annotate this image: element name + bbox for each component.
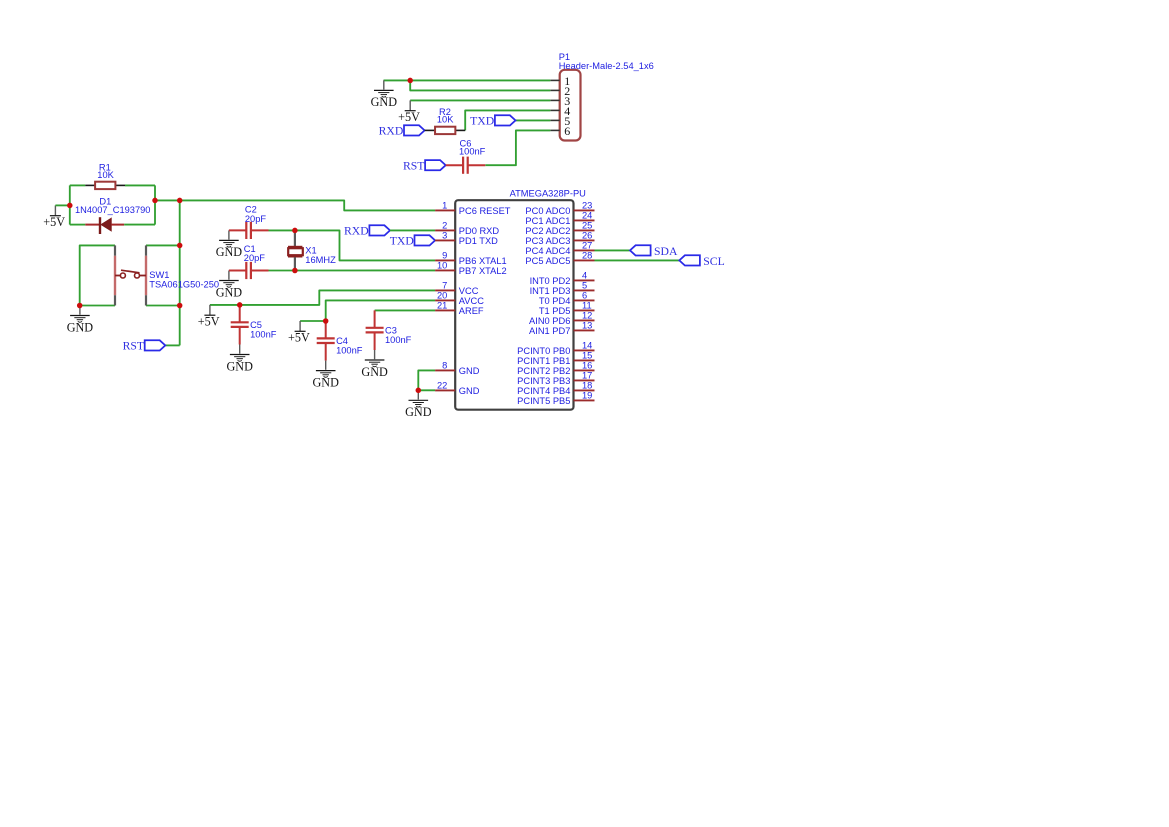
svg-text:14: 14 xyxy=(582,341,592,351)
wire SW1 bottom right xyxy=(146,305,180,307)
svg-text:13: 13 xyxy=(582,321,592,331)
IC U1 ATMEGA328P-PU body xyxy=(455,200,573,410)
IC pin 9 PB6 XTAL1 xyxy=(435,259,455,261)
IC pin 25 PC2 ADC2 xyxy=(574,229,595,231)
svg-text:GND: GND xyxy=(459,386,480,396)
svg-text:GND: GND xyxy=(312,375,339,389)
IC pin 14 PCINT0 PB0 xyxy=(574,349,595,351)
net flag TXD (at IC pin3) xyxy=(415,235,436,245)
IC pin 19 PCINT5 PB5 xyxy=(574,399,595,401)
wire left side of R1/D1 loop xyxy=(69,185,71,224)
capacitor C3 xyxy=(374,310,376,327)
IC pin 24 PC1 ADC1 xyxy=(574,219,595,221)
ground flag under C3 xyxy=(365,350,385,367)
junction SW1 bottom xyxy=(177,303,183,309)
ground flag at C1 xyxy=(219,271,239,288)
svg-text:19: 19 xyxy=(582,391,592,401)
svg-text:RXD: RXD xyxy=(344,225,369,238)
wire AREF to C3 xyxy=(375,309,436,311)
wire C4 node to +5V xyxy=(300,320,326,322)
svg-text:GND: GND xyxy=(405,405,432,419)
svg-text:PC0 ADC0: PC0 ADC0 xyxy=(525,206,570,216)
junction C4 node xyxy=(323,318,329,324)
svg-text:15: 15 xyxy=(582,351,592,361)
junction on pin1 net xyxy=(407,78,413,84)
svg-text:20: 20 xyxy=(437,291,447,301)
wire junction to P1 pin2 xyxy=(410,80,550,90)
svg-text:GND: GND xyxy=(459,366,480,376)
wire C2 to junction xyxy=(269,229,295,231)
svg-text:10K: 10K xyxy=(97,170,114,180)
IC pin 10 PB7 XTAL2 xyxy=(435,269,455,271)
net flag RXD (at R2) xyxy=(404,125,425,135)
wire SW1 left loop xyxy=(80,245,115,305)
wire D1 to loop right xyxy=(124,224,155,226)
pin 3 of P1 xyxy=(550,99,559,101)
wire C6 to P1 pin6 xyxy=(485,130,550,165)
capacitor C5 xyxy=(239,305,241,322)
svg-text:VCC: VCC xyxy=(459,286,479,296)
svg-text:GND: GND xyxy=(371,95,398,109)
ground flag near P1 xyxy=(374,80,394,97)
svg-text:+5V: +5V xyxy=(198,315,220,329)
power flag +5V at C4 xyxy=(299,321,301,331)
wire TXD flag to P1 pin5 xyxy=(516,119,551,121)
svg-text:RXD: RXD xyxy=(379,125,404,138)
svg-text:GND: GND xyxy=(67,320,94,334)
net flag SCL xyxy=(679,255,700,265)
svg-text:SDA: SDA xyxy=(654,245,678,258)
ground flag under SW1 xyxy=(70,306,90,323)
svg-text:9: 9 xyxy=(442,251,447,261)
wire to RST flag xyxy=(165,344,179,346)
svg-text:24: 24 xyxy=(582,211,592,221)
svg-text:22: 22 xyxy=(437,381,447,391)
svg-text:10: 10 xyxy=(437,261,447,271)
resistor R1 xyxy=(85,184,94,186)
svg-text:RST: RST xyxy=(403,160,424,173)
net flag RXD (at IC pin2) xyxy=(369,225,390,235)
power flag +5V at C5 xyxy=(209,305,211,315)
power flag +5V near P1 xyxy=(409,100,411,110)
svg-text:23: 23 xyxy=(582,201,592,211)
wire reset node to IC pin1 xyxy=(180,200,435,210)
junction XTAL2 node xyxy=(292,268,298,274)
IC pin 23 PC0 ADC0 xyxy=(574,209,595,211)
svg-text:INT0 PD2: INT0 PD2 xyxy=(530,276,571,286)
svg-text:28: 28 xyxy=(582,251,592,261)
svg-text:TXD: TXD xyxy=(470,115,494,128)
svg-text:+5V: +5V xyxy=(43,215,65,229)
IC pin 13 AIN1 PD7 xyxy=(574,329,595,331)
svg-text:PC1 ADC1: PC1 ADC1 xyxy=(525,216,570,226)
IC pin 12 AIN0 PD6 xyxy=(574,319,595,321)
wire +5V to P1 pin3 xyxy=(410,99,550,101)
svg-text:25: 25 xyxy=(582,221,592,231)
ground flag under C5 xyxy=(230,345,250,362)
junction main reset node xyxy=(177,198,183,204)
wire VCC to +5V rail xyxy=(210,290,435,305)
svg-text:100nF: 100nF xyxy=(459,147,486,157)
svg-text:6: 6 xyxy=(564,124,570,138)
svg-text:26: 26 xyxy=(582,231,592,241)
svg-text:T0 PD4: T0 PD4 xyxy=(539,296,571,306)
svg-text:16MHZ: 16MHZ xyxy=(305,255,336,265)
svg-text:1N4007_C193790: 1N4007_C193790 xyxy=(75,205,150,215)
svg-text:PD1 TXD: PD1 TXD xyxy=(459,236,498,246)
svg-text:PC4 ADC4: PC4 ADC4 xyxy=(525,246,570,256)
svg-text:PC5 ADC5: PC5 ADC5 xyxy=(525,256,570,266)
svg-text:PD0 RXD: PD0 RXD xyxy=(459,226,500,236)
svg-text:17: 17 xyxy=(582,371,592,381)
svg-text:SCL: SCL xyxy=(703,255,724,268)
ground flag under IC xyxy=(409,390,429,407)
svg-text:12: 12 xyxy=(582,311,592,321)
wire IC pin27 to SDA xyxy=(595,249,631,251)
IC pin 15 PCINT1 PB1 xyxy=(574,359,595,361)
IC pin 28 PC5 ADC5 xyxy=(574,259,595,261)
svg-text:6: 6 xyxy=(582,291,587,301)
svg-text:11: 11 xyxy=(582,301,592,311)
capacitor C4 xyxy=(325,321,327,338)
svg-text:TXD: TXD xyxy=(390,235,414,248)
svg-text:AREF: AREF xyxy=(459,306,484,316)
IC pin 20 AVCC xyxy=(435,299,455,301)
wire right side of loop xyxy=(154,185,156,224)
diode D1 xyxy=(70,224,86,226)
svg-text:1: 1 xyxy=(442,201,447,211)
capacitor C6 xyxy=(446,164,463,166)
IC pin 1 PC6 RESET xyxy=(435,209,455,211)
wire C1 to junction xyxy=(269,270,295,272)
svg-text:PC6 RESET: PC6 RESET xyxy=(459,206,511,216)
IC pin 21 AREF xyxy=(435,309,455,311)
ground flag under C4 xyxy=(316,361,336,378)
svg-text:GND: GND xyxy=(216,285,243,299)
net flag RST (reset line) xyxy=(145,340,166,350)
svg-text:AIN1 PD7: AIN1 PD7 xyxy=(529,326,570,336)
wire RXD to IC pin2 xyxy=(390,229,435,231)
svg-text:PB6 XTAL1: PB6 XTAL1 xyxy=(459,256,507,266)
ground flag at C2 xyxy=(219,230,239,247)
svg-text:ATMEGA328P-PU: ATMEGA328P-PU xyxy=(510,189,586,199)
svg-text:10K: 10K xyxy=(437,115,454,125)
IC pin 16 PCINT2 PB2 xyxy=(574,369,595,371)
wire XTAL1 node to IC pin9 xyxy=(295,230,435,260)
wire IC pin28 to SCL xyxy=(595,259,680,261)
svg-text:PC3 ADC3: PC3 ADC3 xyxy=(525,236,570,246)
IC pin 27 PC4 ADC4 xyxy=(574,249,595,251)
wire to R1 left xyxy=(70,184,86,186)
net flag TXD xyxy=(495,115,516,125)
svg-text:PCINT1 PB1: PCINT1 PB1 xyxy=(517,356,570,366)
svg-text:16: 16 xyxy=(582,361,592,371)
power flag +5V at R1/D1 xyxy=(54,205,56,215)
junction XTAL1 node xyxy=(292,228,298,234)
svg-text:PB7 XTAL2: PB7 XTAL2 xyxy=(459,266,507,276)
svg-text:TSA061G50-250: TSA061G50-250 xyxy=(149,280,219,290)
wire reset node vertical xyxy=(179,200,181,345)
svg-text:2: 2 xyxy=(442,221,447,231)
svg-text:+5V: +5V xyxy=(398,110,420,124)
IC pin 6 T0 PD4 xyxy=(574,299,595,301)
IC pin 5 INT1 PD3 xyxy=(574,289,595,291)
svg-text:SW1: SW1 xyxy=(149,270,169,280)
svg-text:PCINT4 PB4: PCINT4 PB4 xyxy=(517,386,570,396)
svg-text:8: 8 xyxy=(442,361,447,371)
IC pin 26 PC3 ADC3 xyxy=(574,239,595,241)
IC pin 17 PCINT3 PB3 xyxy=(574,379,595,381)
capacitor C2 xyxy=(229,229,246,231)
pin 5 of P1 xyxy=(550,119,559,121)
svg-text:20pF: 20pF xyxy=(244,253,266,263)
wire GND to P1 pin1 xyxy=(384,79,551,81)
junction at +5V node xyxy=(67,203,73,209)
wire R2 to P1 pin4 xyxy=(465,110,550,130)
svg-text:PC2 ADC2: PC2 ADC2 xyxy=(525,226,570,236)
IC pin 7 VCC xyxy=(435,289,455,291)
IC pin 2 PD0 RXD xyxy=(435,229,455,231)
svg-text:100nF: 100nF xyxy=(250,329,277,339)
capacitor C1 xyxy=(229,270,246,272)
svg-text:PCINT2 PB2: PCINT2 PB2 xyxy=(517,366,570,376)
resistor R2 xyxy=(425,129,436,131)
wire AVCC to C4 node xyxy=(326,300,435,321)
wire SW1 top right xyxy=(146,244,180,246)
pin 2 of P1 xyxy=(550,89,559,91)
IC pin 22 GND xyxy=(435,389,455,391)
wire IC pin8 GND xyxy=(418,370,435,390)
wire XTAL2 node to IC pin10 xyxy=(295,269,435,271)
junction C5 node xyxy=(237,302,243,308)
pin 4 of P1 xyxy=(550,109,559,111)
crystal X1 xyxy=(294,230,296,246)
svg-text:AVCC: AVCC xyxy=(459,296,484,306)
svg-text:PCINT0 PB0: PCINT0 PB0 xyxy=(517,346,570,356)
wire +5V to junction xyxy=(55,204,69,206)
junction SW1 top xyxy=(177,243,183,249)
svg-text:Header-Male-2.54_1x6: Header-Male-2.54_1x6 xyxy=(559,61,654,71)
svg-text:5: 5 xyxy=(582,281,587,291)
IC pin 18 PCINT4 PB4 xyxy=(574,389,595,391)
svg-text:3: 3 xyxy=(442,231,447,241)
junction GND pins node xyxy=(416,388,422,394)
IC pin 4 INT0 PD2 xyxy=(574,279,595,281)
IC pin 3 PD1 TXD xyxy=(435,239,455,241)
wire IC pin22 GND xyxy=(418,389,435,391)
net flag RST (at C6) xyxy=(425,160,446,170)
wire loop to main junction xyxy=(155,199,180,201)
svg-text:GND: GND xyxy=(361,365,388,379)
net flag SDA xyxy=(630,245,651,255)
svg-text:100nF: 100nF xyxy=(385,335,412,345)
svg-text:PCINT3 PB3: PCINT3 PB3 xyxy=(517,376,570,386)
svg-text:T1 PD5: T1 PD5 xyxy=(539,306,571,316)
IC pin 11 T1 PD5 xyxy=(574,309,595,311)
pin 1 of P1 xyxy=(550,79,559,81)
pin 6 of P1 xyxy=(550,129,559,131)
svg-text:21: 21 xyxy=(437,301,447,311)
junction SW1 gnd xyxy=(77,303,83,309)
connector P1 Header-Male-2.54_1x6 xyxy=(560,70,581,141)
svg-text:27: 27 xyxy=(582,241,592,251)
svg-text:AIN0 PD6: AIN0 PD6 xyxy=(529,316,570,326)
switch SW1 xyxy=(114,245,116,255)
svg-text:4: 4 xyxy=(582,271,587,281)
svg-text:PCINT5 PB5: PCINT5 PB5 xyxy=(517,396,570,406)
junction at loop right xyxy=(152,198,158,204)
IC pin 8 GND xyxy=(435,369,455,371)
svg-text:100nF: 100nF xyxy=(336,345,363,355)
svg-text:X1: X1 xyxy=(305,245,316,255)
svg-text:20pF: 20pF xyxy=(245,214,267,224)
svg-text:GND: GND xyxy=(216,245,243,259)
svg-text:RST: RST xyxy=(123,340,144,353)
wire R1 right to loop corner xyxy=(125,184,155,186)
svg-text:7: 7 xyxy=(442,281,447,291)
svg-text:INT1 PD3: INT1 PD3 xyxy=(530,286,571,296)
svg-text:GND: GND xyxy=(226,359,253,373)
svg-text:+5V: +5V xyxy=(288,331,310,345)
svg-text:18: 18 xyxy=(582,381,592,391)
